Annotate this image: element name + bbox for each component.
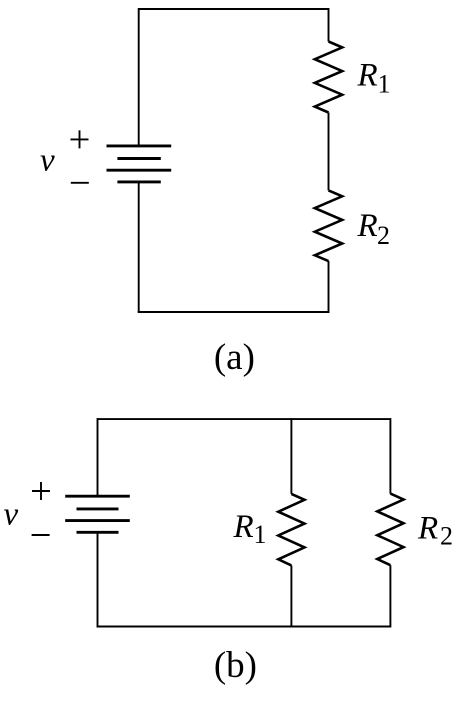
label R2 (a) (357, 208, 391, 250)
resistor R2 (a) zigzag (315, 190, 342, 261)
label R1 (b) (233, 509, 267, 549)
svg-text:v: v (40, 143, 55, 179)
wire middle branch lower (b): R1 to bottom rail (290, 565, 292, 627)
battery V1 (voltage source v) plates (b) (65, 496, 130, 532)
svg-text:v: v (4, 497, 19, 533)
wire middle branch upper (b): top rail to R1 (290, 418, 292, 494)
wire right lower (b): R2 to bottom rail (389, 565, 391, 627)
label R1 (a) (357, 58, 391, 99)
svg-text:R: R (233, 509, 254, 545)
label R2 (b) (417, 511, 453, 551)
wire right upper (a): top rail to R1 (328, 8, 330, 42)
wire left lower (a): battery - plate to bottom rail (138, 182, 140, 312)
svg-text:R: R (357, 58, 378, 94)
svg-text:2: 2 (377, 221, 390, 250)
wire top (b) (98, 418, 391, 420)
battery V1 (voltage source v) plates (a) (107, 146, 172, 182)
wire top (a) (139, 8, 329, 10)
svg-text:(a): (a) (214, 337, 255, 378)
svg-text:1: 1 (378, 70, 391, 99)
wire right lower (a): R2 to bottom rail (328, 261, 330, 313)
resistor R2 (b) zigzag (377, 494, 403, 566)
svg-text:1: 1 (254, 520, 267, 549)
svg-text:2: 2 (440, 522, 453, 551)
label + (a) (71, 130, 89, 148)
resistor R1 (a) zigzag (315, 42, 342, 113)
label - (b) (32, 534, 50, 536)
wire left upper (a): top rail to battery + plate (138, 8, 140, 146)
wire bottom (b) (97, 626, 391, 628)
svg-text:R: R (357, 208, 378, 244)
wire bottom (a) (138, 311, 330, 313)
resistor R1 (b) zigzag (278, 494, 304, 566)
wire right middle (a): R1 to R2 (328, 113, 330, 191)
wire left upper (b): top rail to battery + plate (97, 418, 99, 496)
svg-text:(b): (b) (214, 645, 257, 686)
label + (b) (32, 482, 50, 500)
label - (a) (71, 182, 89, 184)
svg-text:R: R (417, 511, 438, 547)
wire right upper (b): top rail to R2 (389, 418, 391, 494)
wire left lower (b): battery - plate to bottom rail (97, 532, 99, 627)
